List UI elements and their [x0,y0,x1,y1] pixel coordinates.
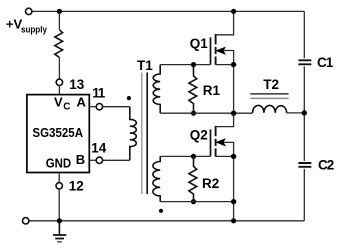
transistor Q1 [211,11,237,113]
svg-text:R2: R2 [202,176,219,191]
node bottom rail / Q2 source [231,218,236,223]
wire pin 11 to T1 primary top [103,106,130,108]
T2 core line (gray) [250,97,288,99]
ground [53,221,66,242]
terminal +Vsupply [26,8,32,14]
mid rail wire (secondary1 bottom to T2) [160,112,252,114]
Q2 channel dashes [215,126,217,157]
wire pin 12 to bottom rail [58,189,60,221]
right rail wire segment (top, to C1) [303,11,305,58]
svg-text:V: V [54,94,63,109]
svg-text:GND: GND [46,156,72,171]
wire T2 to right rail [287,112,305,114]
node Q2 source / loop2 bottom [231,199,236,204]
node R2 top [191,154,196,159]
T1 core line (gray) [141,73,143,195]
wire pin 14 to T1 primary bottom [103,159,130,161]
node R2 bottom [191,199,196,204]
pin 13 terminal circle [56,79,62,85]
T2 core line (dark) [250,93,288,95]
wire secondary2 top to Q2 gate [160,155,210,157]
right rail wire segment (C2 to bottom) [303,169,305,221]
T2 winding [253,105,287,113]
T1 primary phasing dot [127,96,131,100]
pin 11 terminal circle [96,104,102,110]
wire resistor to pin 13 [58,58,60,80]
capacitor C1 [298,60,311,64]
wire top rail to resistor [58,11,60,29]
node: bottom rail / ground junction [57,218,62,223]
Q2 body lead with arrow [216,142,234,156]
node right rail / T2 [302,110,307,115]
node Q1 source [231,62,236,67]
svg-text:T1: T1 [137,58,153,73]
svg-text:B: B [76,152,85,167]
resistor R1 [189,65,197,114]
pin 14 wire from IC [89,159,96,161]
wire secondary2 bottom to Q2 source line [160,201,233,203]
node top rail / Q1 drain [231,9,236,14]
T1 secondary 2 winding [153,156,160,201]
svg-text:R1: R1 [203,83,221,98]
svg-text:supply: supply [21,24,47,35]
svg-text:C2: C2 [318,158,334,173]
svg-text:12: 12 [69,178,84,193]
svg-text:A: A [77,94,87,109]
wire secondary1 top to Q1 gate [160,64,210,66]
Q1 drain lead [216,11,234,34]
transistor Q2 [211,113,237,221]
svg-text:T2: T2 [263,77,279,92]
pin 14 terminal circle [96,157,102,163]
T1 core line (black) [146,73,148,195]
resistor R2 [189,156,197,201]
svg-text:C1: C1 [317,55,334,70]
pin 12 terminal circle [56,183,62,189]
Q1 source lead [216,65,234,114]
T1 secondary 2 phasing dot [159,209,163,213]
Q1 gate bar [210,37,212,64]
Q2 gate bar [210,129,212,156]
node mid rail / Q1 source / Q2 drain [231,111,236,116]
svg-text:Q2: Q2 [190,127,208,142]
pin 11 wire from IC [89,106,96,108]
node R1 bottom [191,111,196,116]
node: top rail / supply resistor junction [57,9,62,14]
svg-text:14: 14 [91,141,107,156]
svg-text:SG3525A: SG3525A [32,125,83,140]
pin 12 wire from IC [58,173,60,183]
node Q2 source [231,154,236,159]
Q2 source lead [216,156,234,220]
terminal bottom left [23,218,29,224]
top supply rail wire [32,10,304,12]
Q2 drain lead [216,113,234,126]
svg-text:C: C [63,101,70,112]
right rail wire segment (C1 to C2) [303,66,305,160]
Q1 channel dashes [215,34,217,65]
svg-text:+V: +V [6,17,23,32]
svg-text:13: 13 [69,77,85,92]
resistor (supply, unlabeled) [55,30,63,58]
Q1 body lead with arrow [216,51,234,65]
wire pin 13 to IC [58,86,60,95]
bottom rail wire [29,220,305,222]
T1 primary winding [130,107,137,161]
node R1 top [191,62,196,67]
svg-text:11: 11 [92,86,105,101]
T1 secondary 1 winding [153,65,160,114]
capacitor C2 [298,163,311,167]
controller U1 SG3525A box [27,95,89,173]
svg-text:Q1: Q1 [190,36,209,51]
